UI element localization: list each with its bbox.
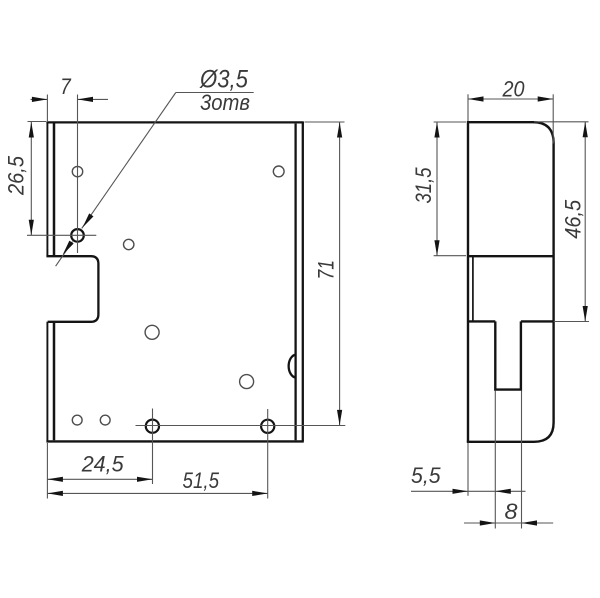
ext line dim 20 left xyxy=(467,94,469,121)
dim 51,5 line xyxy=(47,492,267,494)
ext line dim 46,5 bottom xyxy=(554,321,589,323)
ext line dim 20 right xyxy=(552,94,554,143)
hole F xyxy=(240,375,254,389)
plate top edge xyxy=(46,121,303,123)
hole H xyxy=(100,415,110,425)
plate bottom edge xyxy=(46,440,303,442)
svg-text:46,5: 46,5 xyxy=(561,199,586,239)
plate left inner edge lower xyxy=(53,322,56,440)
ext line 5,5 left (part left edge extended) xyxy=(467,443,469,496)
step line xyxy=(468,255,554,257)
dim 7 line xyxy=(31,98,48,100)
svg-text:51,5: 51,5 xyxy=(183,468,220,493)
plate left outer edge lower xyxy=(46,322,48,442)
hole C xyxy=(124,239,134,249)
plate left inner edge upper xyxy=(53,123,56,256)
dim 5,5 line xyxy=(411,490,526,492)
hole I (bottom left mount) xyxy=(146,420,159,433)
slot top line left segment xyxy=(468,320,495,322)
hole E xyxy=(145,325,159,339)
dim 8 line xyxy=(464,522,553,524)
inner left line (material thickness) xyxy=(472,257,474,321)
centerline hole J vertical / ext of dim 51,5 xyxy=(267,409,269,499)
svg-text:3отв: 3отв xyxy=(200,90,250,115)
dim 71 line xyxy=(339,122,341,425)
svg-text:5,5: 5,5 xyxy=(411,463,441,488)
ext line dim 7 left xyxy=(46,95,48,123)
dim 26,5 line xyxy=(30,122,32,235)
dim 31,5 line xyxy=(436,122,438,256)
centerline through holes I,J / ext of dim 71 xyxy=(136,425,346,427)
plate left outer edge upper xyxy=(46,122,48,256)
ext line dim 46,5 top xyxy=(534,121,589,123)
side view outline xyxy=(467,122,554,442)
dim 20 line xyxy=(468,98,553,100)
ext line dim 31,5 bottom xyxy=(434,255,466,257)
svg-text:31,5: 31,5 xyxy=(411,167,436,204)
centerline through holes A,B / ext of dim 7 xyxy=(77,95,79,254)
centerline hole B horizontal / ext of dim 26,5 xyxy=(27,234,96,236)
centerline hole I vertical / ext of dim 24,5 xyxy=(152,409,154,485)
hole B (dimensioned) xyxy=(71,229,84,242)
semicircular cutout on right inner edge xyxy=(289,355,296,378)
slot top line right segment xyxy=(521,320,554,322)
hole J (bottom right mount) xyxy=(261,420,274,433)
hole G xyxy=(72,415,82,425)
hole A xyxy=(72,166,82,176)
svg-text:24,5: 24,5 xyxy=(81,451,125,476)
svg-text:26,5: 26,5 xyxy=(3,155,28,196)
svg-text:7: 7 xyxy=(60,74,71,99)
leader arrowhead at hole B xyxy=(80,213,93,229)
svg-text:71: 71 xyxy=(314,260,339,280)
dim 24,5 line xyxy=(47,478,152,480)
ext line dim 31,5 top xyxy=(434,121,466,123)
svg-text:8: 8 xyxy=(505,499,519,524)
ext line slot right extended xyxy=(521,391,523,529)
plate right outer edge xyxy=(302,122,304,441)
hole callout leader xyxy=(82,93,176,229)
leader arrowhead at edge xyxy=(61,241,74,257)
side view left edge xyxy=(467,121,469,442)
plate right inner edge xyxy=(294,124,296,441)
dim 46,5 line xyxy=(584,122,586,322)
notch outline xyxy=(46,256,98,322)
U slot xyxy=(495,321,521,389)
svg-text:20: 20 xyxy=(502,77,526,102)
ext line slot left extended xyxy=(494,391,496,529)
ext line dim 26,5 top xyxy=(28,121,47,123)
hole D xyxy=(273,166,284,177)
ext line dim 71 top xyxy=(305,121,345,123)
ext line dims 24,5 / 51,5 left (plate corner extended down) xyxy=(46,443,48,499)
leader shelf xyxy=(176,92,254,94)
